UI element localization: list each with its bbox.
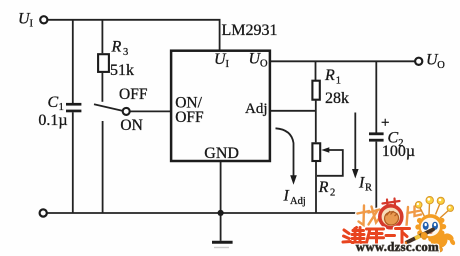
svg-text:OFF: OFF [119, 86, 148, 103]
svg-text:O: O [260, 59, 268, 70]
svg-text:I: I [283, 187, 290, 204]
svg-text:Adj: Adj [290, 196, 306, 207]
svg-text:51k: 51k [110, 62, 134, 79]
svg-text:I: I [358, 174, 365, 191]
svg-text:R: R [111, 39, 122, 56]
svg-text:LM2931: LM2931 [222, 22, 278, 39]
svg-text:OFF: OFF [175, 109, 204, 126]
svg-text:2: 2 [330, 187, 335, 198]
svg-text:3: 3 [123, 47, 128, 58]
svg-text:R: R [324, 67, 335, 84]
svg-text:1: 1 [336, 76, 341, 87]
svg-text:C: C [48, 94, 59, 111]
svg-text:I: I [226, 59, 230, 70]
svg-text:Adj: Adj [245, 101, 268, 117]
svg-text:R: R [365, 183, 372, 194]
svg-text:O: O [437, 60, 445, 71]
svg-text:GND: GND [204, 145, 239, 162]
svg-text:ON: ON [120, 117, 142, 134]
svg-text:0.1µ: 0.1µ [38, 112, 67, 129]
svg-text:R: R [318, 179, 329, 196]
svg-text:100µ: 100µ [382, 143, 415, 160]
svg-text:www.dzsc.com: www.dzsc.com [356, 240, 439, 254]
svg-text:I: I [30, 19, 34, 30]
svg-text:28k: 28k [325, 90, 349, 107]
